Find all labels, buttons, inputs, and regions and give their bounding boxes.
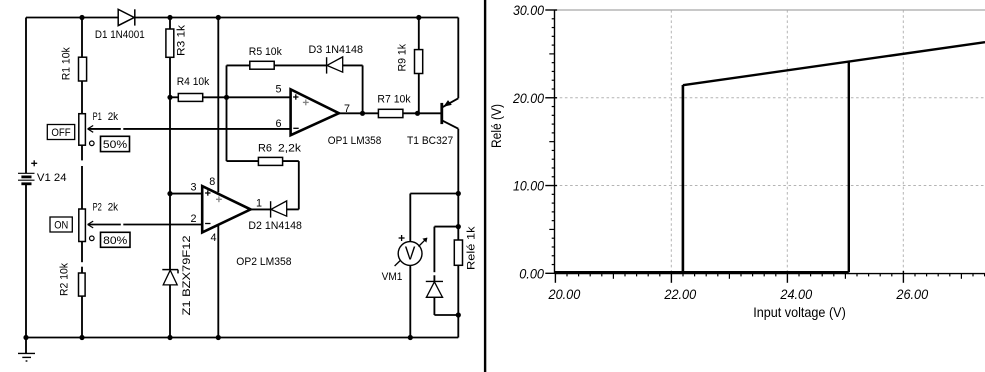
svg-text:3: 3 bbox=[190, 182, 196, 194]
svg-text:20.00: 20.00 bbox=[548, 286, 581, 302]
svg-text:P2: P2 bbox=[93, 202, 102, 214]
svg-text:30.00: 30.00 bbox=[513, 2, 544, 18]
svg-text:VM1: VM1 bbox=[382, 271, 403, 283]
svg-text:8: 8 bbox=[209, 176, 215, 188]
svg-text:R2 10k: R2 10k bbox=[59, 262, 71, 296]
svg-text:22.00: 22.00 bbox=[663, 286, 696, 302]
svg-text:D1 1N4001: D1 1N4001 bbox=[95, 29, 145, 41]
svg-text:2k: 2k bbox=[108, 111, 119, 123]
svg-text:T1 BC327: T1 BC327 bbox=[407, 135, 453, 147]
svg-text:R4 10k: R4 10k bbox=[177, 76, 210, 88]
svg-text:OP1 LM358: OP1 LM358 bbox=[328, 135, 382, 147]
svg-text:R6: R6 bbox=[258, 143, 272, 155]
svg-text:2k: 2k bbox=[108, 202, 119, 214]
svg-text:R9 1k: R9 1k bbox=[397, 43, 409, 71]
svg-text:4: 4 bbox=[211, 232, 217, 244]
svg-text:5: 5 bbox=[275, 84, 281, 96]
svg-text:0.00: 0.00 bbox=[519, 265, 544, 281]
svg-text:2: 2 bbox=[190, 213, 196, 225]
svg-text:R7 10k: R7 10k bbox=[377, 94, 411, 106]
svg-text:D2 1N4148: D2 1N4148 bbox=[248, 220, 302, 232]
svg-text:Z1 BZX79F12: Z1 BZX79F12 bbox=[181, 236, 193, 316]
svg-text:24.00: 24.00 bbox=[779, 286, 812, 302]
svg-text:D3 1N4148: D3 1N4148 bbox=[309, 44, 364, 56]
svg-text:20.00: 20.00 bbox=[512, 90, 544, 106]
svg-text:2,2k: 2,2k bbox=[278, 143, 302, 155]
svg-text:1: 1 bbox=[256, 197, 262, 209]
svg-text:Input voltage (V): Input voltage (V) bbox=[753, 304, 846, 320]
svg-text:R3 1k: R3 1k bbox=[176, 24, 188, 56]
svg-text:V1 24: V1 24 bbox=[37, 172, 67, 184]
svg-text:OFF: OFF bbox=[51, 127, 71, 139]
svg-text:50%: 50% bbox=[103, 139, 128, 151]
svg-text:Relé (V): Relé (V) bbox=[488, 104, 504, 148]
svg-text:6: 6 bbox=[275, 118, 281, 130]
svg-text:R5 10k: R5 10k bbox=[249, 46, 283, 58]
svg-text:26.00: 26.00 bbox=[895, 286, 928, 302]
svg-text:R1 10k: R1 10k bbox=[61, 47, 73, 81]
svg-text:OP2 LM358: OP2 LM358 bbox=[236, 256, 291, 268]
svg-text:ON: ON bbox=[54, 220, 68, 232]
svg-text:V: V bbox=[405, 243, 416, 263]
svg-text:P1: P1 bbox=[93, 111, 102, 123]
svg-text:10.00: 10.00 bbox=[513, 178, 544, 194]
svg-text:Relé 1k: Relé 1k bbox=[466, 226, 478, 270]
svg-text:80%: 80% bbox=[103, 235, 128, 247]
